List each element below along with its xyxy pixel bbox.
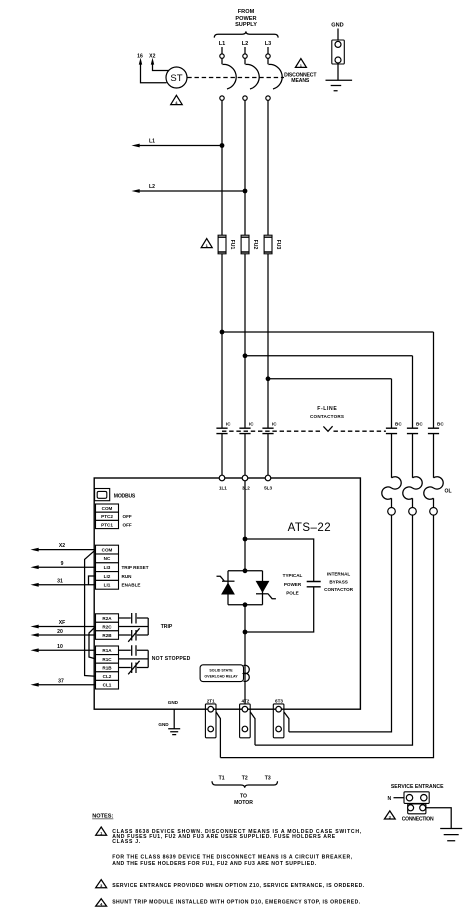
- svg-text:SHUNT TRIP MODULE INSTALLED WI: SHUNT TRIP MODULE INSTALLED WITH OPTION …: [112, 900, 361, 906]
- svg-text:2T1: 2T1: [207, 698, 215, 703]
- svg-text:20: 20: [57, 629, 63, 635]
- svg-text:ENABLE: ENABLE: [122, 583, 141, 588]
- svg-text:OL: OL: [445, 489, 452, 495]
- svg-text:AND THE FUSE HOLDERS FOR FU1,: AND THE FUSE HOLDERS FOR FU1, FU2 AND FU…: [112, 861, 317, 867]
- svg-text:L2: L2: [149, 184, 155, 190]
- svg-text:BC: BC: [437, 422, 444, 427]
- svg-text:16: 16: [137, 53, 143, 59]
- svg-text:4T2: 4T2: [241, 698, 249, 703]
- svg-text:9: 9: [61, 561, 64, 567]
- svg-text:R2A: R2A: [102, 616, 112, 621]
- svg-text:FU2: FU2: [252, 240, 258, 250]
- svg-text:OVERLOAD RELAY: OVERLOAD RELAY: [204, 675, 238, 679]
- svg-text:PTC1: PTC1: [101, 522, 113, 527]
- svg-text:T2: T2: [242, 775, 248, 781]
- svg-text:TRIP: TRIP: [161, 624, 173, 630]
- svg-text:R1B: R1B: [102, 665, 112, 670]
- svg-text:NC: NC: [104, 556, 111, 561]
- svg-text:IC: IC: [249, 422, 254, 427]
- svg-text:6T3: 6T3: [275, 698, 283, 703]
- svg-text:ATS–22: ATS–22: [288, 522, 331, 534]
- svg-text:LI3: LI3: [104, 565, 111, 570]
- svg-text:PTC2: PTC2: [101, 514, 113, 519]
- svg-text:TYPICAL: TYPICAL: [283, 573, 303, 578]
- svg-text:INTERNAL: INTERNAL: [327, 572, 350, 577]
- svg-text:RUN: RUN: [122, 574, 133, 579]
- svg-text:FOR THE CLASS 8639 DEVICE THE: FOR THE CLASS 8639 DEVICE THE DISCONNECT…: [112, 855, 353, 861]
- svg-text:BC: BC: [416, 422, 423, 427]
- svg-text:1L1: 1L1: [219, 486, 227, 491]
- svg-text:F-LINE: F-LINE: [317, 406, 337, 412]
- svg-text:BYPASS: BYPASS: [329, 579, 348, 584]
- svg-text:31: 31: [57, 578, 63, 584]
- svg-text:SERVICE ENTRANCE PROVIDED WHEN: SERVICE ENTRANCE PROVIDED WHEN OPTION Z1…: [112, 883, 365, 889]
- svg-text:IC: IC: [272, 422, 277, 427]
- svg-text:X2: X2: [59, 543, 65, 549]
- svg-text:CONTACTORS: CONTACTORS: [310, 414, 344, 419]
- svg-text:R1C: R1C: [102, 657, 112, 662]
- svg-text:R1A: R1A: [102, 648, 112, 653]
- svg-text:5L3: 5L3: [264, 486, 272, 491]
- svg-text:OFF: OFF: [123, 514, 132, 519]
- svg-text:NOT STOPPED: NOT STOPPED: [152, 656, 191, 662]
- svg-text:LI1: LI1: [104, 583, 111, 588]
- svg-text:CL2: CL2: [103, 674, 112, 679]
- svg-text:TO: TO: [240, 794, 247, 800]
- svg-text:IC: IC: [226, 422, 231, 427]
- svg-text:POLE: POLE: [286, 591, 299, 596]
- svg-text:TRIP RESET: TRIP RESET: [122, 565, 149, 570]
- svg-text:R2C: R2C: [102, 624, 112, 629]
- svg-text:POWER: POWER: [284, 582, 302, 587]
- svg-text:OFF: OFF: [123, 522, 132, 527]
- svg-text:N: N: [387, 796, 391, 802]
- svg-text:FROM: FROM: [238, 9, 255, 15]
- svg-text:X2: X2: [149, 53, 155, 59]
- svg-text:GND: GND: [158, 722, 169, 727]
- svg-text:SOLID STATE: SOLID STATE: [209, 668, 233, 672]
- svg-text:FU1: FU1: [229, 240, 235, 250]
- svg-text:LI2: LI2: [104, 574, 111, 579]
- svg-text:GND: GND: [331, 23, 343, 29]
- svg-text:CONNECTION: CONNECTION: [402, 816, 434, 822]
- svg-text:L1: L1: [219, 41, 226, 47]
- svg-text:CL1: CL1: [103, 683, 112, 688]
- svg-text:MODBUS: MODBUS: [114, 493, 136, 499]
- svg-text:10: 10: [57, 644, 63, 650]
- svg-text:3L2: 3L2: [242, 486, 250, 491]
- svg-text:AND FUSES FU1, FU2 AND FU3 ARE: AND FUSES FU1, FU2 AND FU3 ARE USER SUPP…: [112, 834, 336, 840]
- svg-text:COM: COM: [102, 547, 113, 552]
- svg-text:L2: L2: [242, 41, 249, 47]
- svg-text:COM: COM: [102, 506, 113, 511]
- svg-text:FU3: FU3: [275, 240, 281, 250]
- svg-text:GND: GND: [168, 700, 179, 705]
- svg-text:MOTOR: MOTOR: [234, 800, 253, 806]
- svg-text:T1: T1: [219, 775, 225, 781]
- svg-text:T3: T3: [265, 775, 271, 781]
- svg-text:37: 37: [58, 678, 64, 684]
- svg-text:ST: ST: [170, 73, 182, 84]
- svg-text:R2B: R2B: [102, 633, 112, 638]
- svg-text:XF: XF: [59, 620, 66, 626]
- svg-text:L1: L1: [149, 139, 155, 145]
- svg-text:SUPPLY: SUPPLY: [235, 22, 257, 28]
- svg-text:MEANS: MEANS: [291, 78, 310, 84]
- svg-text:BC: BC: [395, 422, 402, 427]
- svg-text:NOTES:: NOTES:: [92, 814, 113, 820]
- svg-text:CLASS J.: CLASS J.: [112, 839, 141, 845]
- svg-text:L3: L3: [265, 41, 272, 47]
- svg-text:POWER: POWER: [235, 16, 256, 22]
- svg-text:SERVICE ENTRANCE: SERVICE ENTRANCE: [391, 784, 444, 790]
- svg-text:CONTACTOR: CONTACTOR: [324, 587, 354, 592]
